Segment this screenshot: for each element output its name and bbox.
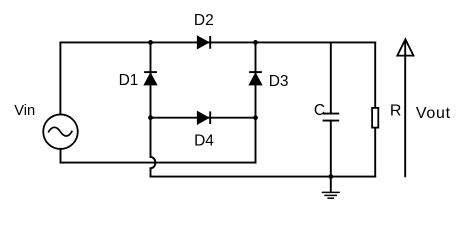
wire left vertical [59, 42, 61, 114]
wire source bottom stub [60, 149, 62, 162]
wire top rail [60, 41, 375, 43]
wire Vin- riser [255, 118, 257, 163]
wire capacitor bottom [330, 121, 332, 177]
svg-text:Vin: Vin [14, 103, 35, 119]
svg-text:R: R [390, 103, 402, 120]
svg-text:Vout: Vout [416, 105, 451, 122]
node dot D1-top [148, 40, 153, 45]
diode D1 [144, 72, 157, 85]
svg-text:D1: D1 [119, 72, 139, 89]
node dot D1-D4 [148, 115, 153, 120]
node dot ground [328, 174, 333, 179]
Vout arrow line [404, 40, 406, 178]
wire ground run [151, 168, 376, 176]
wire capacitor top [330, 42, 332, 113]
wire Vin- horizontal [61, 162, 256, 164]
resistor R body [372, 108, 378, 128]
wire hop over Vin- wire [151, 157, 156, 168]
Vout arrow head [397, 39, 413, 55]
wire resistor top [374, 42, 376, 108]
svg-text:D4: D4 [194, 133, 214, 150]
svg-text:C: C [314, 102, 325, 119]
diode D3 [249, 72, 262, 85]
svg-text:D3: D3 [269, 73, 289, 90]
node dot D3-top [253, 40, 258, 45]
wire resistor bottom [374, 128, 376, 177]
capacitor C plates [323, 114, 340, 121]
wire D1 branch vertical [150, 42, 152, 156]
ground symbol [322, 177, 340, 199]
source Vin [43, 114, 78, 149]
wire D3 branch vertical [255, 42, 257, 117]
wire D4 middle horizontal [151, 117, 256, 119]
svg-text:D2: D2 [194, 12, 214, 29]
diode D2 [197, 36, 210, 49]
node dot D3-D4 [253, 115, 258, 120]
diode D4 [197, 111, 210, 124]
